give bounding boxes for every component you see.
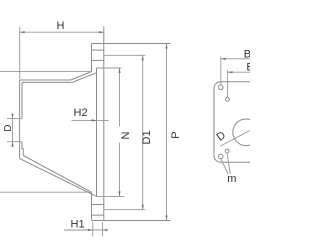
small hole upper	[226, 98, 230, 102]
leader m from bolt hole	[221, 159, 228, 174]
arrow N bottom	[118, 191, 120, 196]
housing left face inner lower	[22, 142, 23, 156]
flange bolt hole lower line 1	[92, 204, 104, 206]
svg-text:D: D	[3, 125, 14, 132]
bore hole bottom edge + D extension	[7, 141, 22, 143]
bolt hole top-left	[218, 85, 223, 90]
wire: mouth diameter extension line bottom (to left edge)	[0, 191, 92, 193]
dimension H1 line	[64, 229, 107, 231]
arrow D bottom	[11, 142, 13, 147]
arrow D1 bottom	[142, 205, 144, 210]
extension line H right / flange back face	[103, 27, 105, 221]
flange bolt hole lower line 2	[92, 214, 104, 216]
arrow B1	[228, 71, 233, 73]
svg-text:B: B	[244, 48, 250, 60]
extension line D1 bottom	[104, 209, 146, 211]
flange recess floor edge	[96, 68, 98, 196]
extension line D1 top	[104, 54, 146, 56]
housing bottom cone inner	[23, 155, 91, 192]
dimension P line	[166, 44, 168, 221]
arrow B	[221, 58, 226, 60]
arrow H right	[99, 31, 104, 33]
wire: mouth diameter extension line top (to left edge)	[0, 71, 92, 73]
flange bolt hole upper line 2	[92, 59, 104, 61]
svg-text:H1: H1	[71, 219, 85, 231]
bolt hole bottom-left	[219, 154, 224, 159]
dimension D (right) diagonal line	[221, 130, 250, 146]
arrow H1 left	[88, 229, 93, 231]
extension line H left	[19, 27, 21, 80]
bore hole top edge + D extension	[7, 118, 22, 120]
flange front face lower	[91, 192, 93, 220]
extension line B	[220, 57, 222, 86]
dimension H2 line	[72, 119, 109, 121]
arrow H left	[20, 31, 25, 33]
dimension D (left) line	[12, 115, 14, 146]
svg-text:H: H	[57, 20, 65, 32]
central bore circle D	[233, 119, 260, 146]
extension line H1 left	[92, 222, 94, 237]
housing top tube outer edge	[20, 72, 92, 80]
svg-text:B: B	[246, 62, 250, 74]
extension line B1	[227, 70, 229, 97]
arrow D1 top	[142, 55, 144, 60]
dimension D1 line	[142, 55, 144, 209]
flange bottom edge + P extension	[92, 220, 171, 222]
arrow H1 right	[103, 229, 108, 231]
extension line H1 right	[102, 222, 104, 237]
housing left face outer	[19, 80, 21, 159]
svg-text:H2: H2	[74, 107, 88, 119]
svg-text:N: N	[120, 132, 132, 140]
housing bottom cone outer	[20, 159, 97, 197]
extension line N top	[97, 67, 122, 69]
arrow H2	[92, 119, 97, 121]
small hole lower	[225, 149, 229, 153]
housing top tube inner edge	[22, 73, 97, 83]
dimension H line	[20, 31, 104, 33]
dimension B1 line	[228, 71, 250, 73]
arrow P bottom	[165, 216, 167, 221]
right view plate outline	[214, 82, 264, 162]
svg-text:D1: D1	[141, 130, 153, 144]
housing left face inner upper	[21, 82, 23, 118]
arrow D top	[11, 114, 13, 119]
svg-text:P: P	[170, 131, 182, 138]
arrow P top	[165, 44, 167, 49]
dimension B line	[221, 58, 250, 60]
flange bolt hole upper line 1	[92, 49, 104, 51]
dimension N line	[119, 68, 121, 127]
leader m from small hole	[227, 153, 230, 174]
flange front face upper	[91, 44, 93, 72]
arrow N top	[118, 68, 120, 73]
svg-text:m: m	[227, 173, 236, 185]
flange top edge + P extension	[92, 43, 171, 45]
extension line N bottom	[96, 195, 124, 197]
